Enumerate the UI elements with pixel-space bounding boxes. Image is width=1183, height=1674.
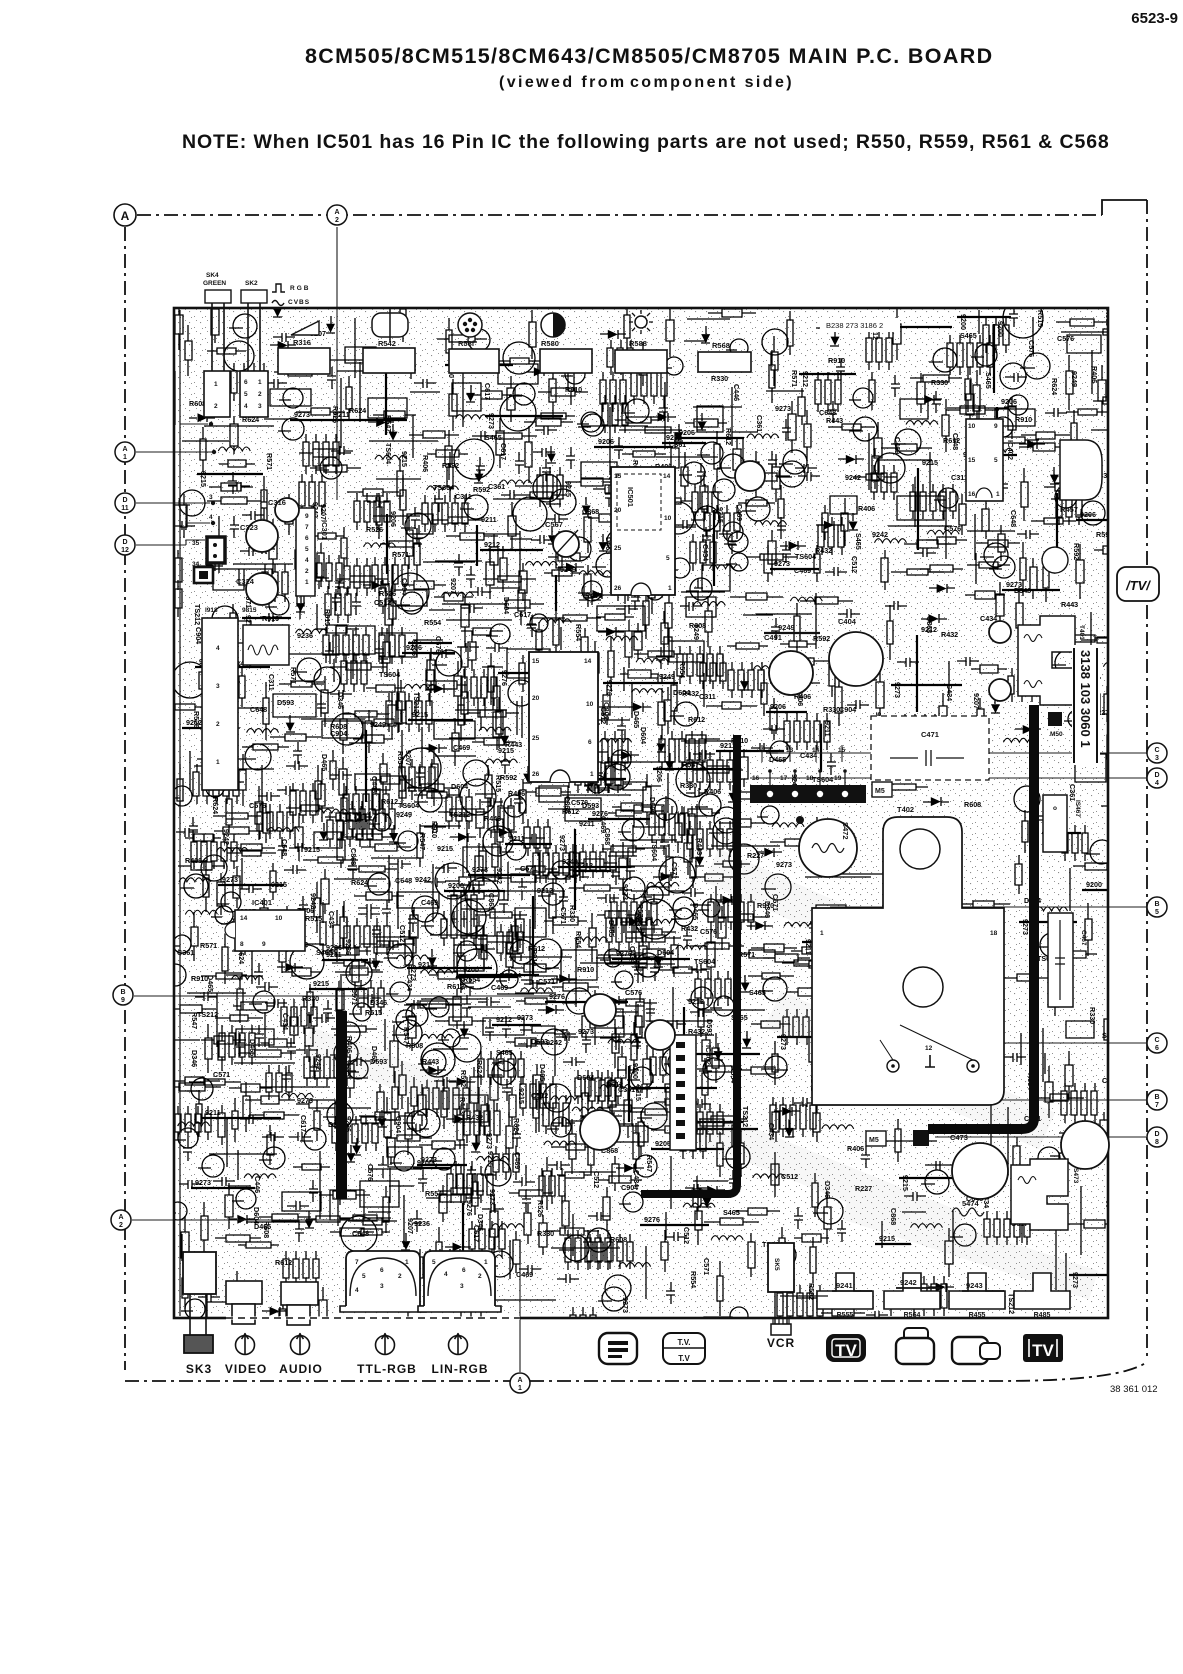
svg-text:AUDIO: AUDIO [279, 1362, 323, 1376]
svg-text:9273: 9273 [775, 404, 791, 413]
svg-text:R406: R406 [421, 455, 430, 472]
svg-text:5: 5 [244, 391, 248, 398]
svg-text:R330: R330 [711, 374, 728, 383]
svg-text:C617: C617 [299, 1115, 308, 1132]
svg-text:38 361 012: 38 361 012 [1110, 1384, 1158, 1395]
svg-text:10: 10 [664, 515, 672, 522]
svg-text:R443: R443 [484, 814, 501, 823]
svg-text:10: 10 [968, 423, 976, 430]
svg-text:9249: 9249 [659, 672, 675, 681]
svg-text:R330: R330 [680, 781, 697, 790]
svg-text:C571: C571 [559, 907, 568, 924]
svg-text:T.V.: T.V. [677, 1338, 690, 1347]
svg-text:R588: R588 [629, 339, 647, 348]
svg-text:9215: 9215 [412, 710, 428, 719]
svg-text:R554: R554 [574, 931, 583, 948]
svg-text:R547: R547 [418, 833, 427, 850]
svg-text:C434: C434 [945, 684, 954, 701]
svg-text:D593: D593 [277, 698, 294, 707]
svg-text:C404: C404 [838, 617, 857, 626]
svg-text:9249: 9249 [778, 623, 795, 632]
svg-text:D: D [122, 539, 127, 546]
svg-text:3: 3 [380, 1283, 384, 1290]
svg-text:D: D [1154, 772, 1159, 779]
svg-text:R571: R571 [392, 550, 409, 559]
svg-text:4: 4 [1155, 780, 1159, 787]
svg-text:TS604: TS604 [795, 552, 816, 561]
svg-text:15: 15 [968, 457, 976, 464]
svg-text:2: 2 [305, 568, 309, 575]
svg-text:C648: C648 [280, 839, 289, 856]
svg-text:T401: T401 [1078, 625, 1085, 640]
svg-text:R316: R316 [293, 338, 311, 347]
svg-text:9276: 9276 [616, 949, 632, 958]
svg-text:9242: 9242 [900, 1278, 917, 1287]
svg-text:C469: C469 [735, 504, 744, 521]
svg-text:10: 10 [275, 915, 283, 922]
svg-text:R910: R910 [430, 821, 439, 838]
svg-text:C361: C361 [488, 482, 505, 491]
svg-text:9215: 9215 [486, 1151, 495, 1167]
svg-text:C904: C904 [400, 578, 409, 595]
svg-text:C648: C648 [250, 705, 267, 714]
svg-text:9273: 9273 [485, 1133, 494, 1149]
svg-text:C323: C323 [240, 523, 258, 532]
svg-text:19: 19 [834, 775, 842, 782]
svg-text:1: 1 [820, 930, 824, 937]
svg-text:D346: D346 [190, 1050, 199, 1067]
svg-text:C469: C469 [513, 1152, 522, 1169]
svg-text:R608: R608 [406, 1041, 423, 1050]
svg-text:D465: D465 [769, 755, 786, 764]
svg-text:5: 5 [432, 1259, 436, 1266]
svg-text:4: 4 [305, 557, 309, 564]
svg-text:C434: C434 [327, 911, 336, 928]
svg-text:C311: C311 [267, 674, 276, 691]
svg-text:11: 11 [121, 505, 129, 512]
svg-text:2: 2 [214, 403, 218, 410]
svg-text:9236: 9236 [297, 631, 313, 640]
svg-text:C434: C434 [281, 1013, 290, 1030]
svg-text:R406: R406 [508, 789, 525, 798]
svg-text:C446: C446 [732, 384, 741, 401]
svg-text:R432: R432 [634, 913, 643, 930]
svg-text:T.V: T.V [678, 1354, 690, 1363]
svg-text:R406: R406 [858, 504, 875, 513]
svg-text:TS604: TS604 [433, 483, 454, 492]
svg-text:R515: R515 [1036, 310, 1045, 327]
svg-text:14: 14 [240, 915, 248, 922]
svg-text:C567: C567 [545, 520, 563, 529]
svg-text:C361: C361 [755, 415, 764, 432]
svg-text:R592: R592 [1096, 530, 1113, 539]
svg-text:9: 9 [305, 513, 309, 520]
svg-text:SK4: SK4 [206, 272, 219, 279]
svg-text:9273: 9273 [222, 875, 238, 884]
svg-text:IC802: IC802 [602, 700, 611, 720]
svg-text:1: 1 [668, 585, 672, 592]
svg-text:SK2: SK2 [245, 280, 258, 287]
svg-text:D465: D465 [691, 903, 700, 920]
svg-text:3: 3 [258, 403, 262, 410]
svg-text:9206: 9206 [770, 702, 786, 711]
svg-text:3: 3 [460, 1283, 464, 1290]
svg-text:IC402: IC402 [1006, 440, 1015, 460]
svg-text:9212: 9212 [577, 861, 593, 870]
svg-text:5: 5 [305, 546, 309, 553]
svg-text:C512: C512 [592, 1171, 601, 1188]
svg-text:C469: C469 [491, 983, 508, 992]
svg-text:R612: R612 [562, 807, 579, 816]
svg-text:3: 3 [209, 494, 213, 501]
svg-text:R624: R624 [1050, 378, 1059, 395]
svg-text:C576: C576 [1057, 334, 1074, 343]
svg-text:R555: R555 [837, 1312, 854, 1319]
svg-text:R592: R592 [1072, 543, 1081, 560]
svg-text:3138 103 3060 1: 3138 103 3060 1 [1078, 650, 1093, 748]
svg-text:S473: S473 [1072, 1168, 1079, 1184]
svg-text:9273: 9273 [517, 1013, 533, 1022]
svg-text:R547: R547 [682, 760, 699, 769]
svg-text:17: 17 [780, 775, 788, 782]
svg-text:R571: R571 [265, 453, 274, 470]
svg-text:9276: 9276 [465, 1200, 474, 1216]
svg-text:R624: R624 [349, 406, 366, 415]
svg-text:C576: C576 [249, 801, 266, 810]
svg-text:C467: C467 [1080, 930, 1087, 946]
svg-text:o: o [1053, 805, 1057, 812]
svg-text:C512: C512 [531, 1091, 548, 1100]
svg-text:4: 4 [355, 1287, 359, 1294]
svg-text:9212: 9212 [186, 718, 202, 727]
svg-text:9212: 9212 [484, 540, 500, 549]
svg-text:9242: 9242 [872, 530, 888, 539]
svg-text:9206: 9206 [389, 511, 398, 527]
svg-text:9215: 9215 [313, 979, 329, 988]
svg-text:C868: C868 [349, 848, 358, 865]
svg-text:R910: R910 [565, 385, 582, 394]
svg-text:R571: R571 [289, 667, 298, 684]
svg-text:9215: 9215 [564, 481, 573, 497]
svg-text:R910: R910 [828, 356, 845, 365]
svg-text:R624: R624 [512, 1118, 521, 1135]
svg-text:9276: 9276 [644, 1215, 660, 1224]
svg-text:RGB: RGB [290, 285, 310, 292]
svg-text:1: 1 [590, 771, 594, 778]
svg-text:TS212: TS212 [197, 1010, 218, 1019]
svg-text:C868: C868 [603, 828, 612, 845]
svg-text:2: 2 [216, 721, 220, 728]
svg-text:4: 4 [209, 514, 213, 521]
svg-text:C512: C512 [682, 1227, 691, 1244]
svg-text:D465: D465 [206, 975, 215, 992]
svg-text:C617: C617 [514, 610, 531, 619]
svg-text:R432: R432 [815, 546, 832, 555]
svg-text:SK5: SK5 [773, 1258, 780, 1271]
svg-text:9242: 9242 [222, 829, 231, 845]
svg-text:9215: 9215 [498, 746, 514, 755]
svg-text:9273: 9273 [294, 410, 310, 419]
svg-text:R612: R612 [381, 797, 398, 806]
svg-text:R592: R592 [442, 461, 459, 470]
svg-text:B238 273 3186 2: B238 273 3186 2 [826, 321, 883, 330]
svg-text:D346: D346 [336, 692, 345, 709]
svg-text:9273: 9273 [774, 559, 790, 568]
svg-text:R406: R406 [847, 1144, 864, 1153]
svg-text:C316: C316 [268, 498, 286, 507]
svg-text:9242: 9242 [415, 875, 431, 884]
svg-text:C471: C471 [921, 730, 939, 739]
svg-text:R608: R608 [964, 800, 981, 809]
svg-text:R571: R571 [790, 370, 799, 387]
svg-text:C576: C576 [1027, 340, 1036, 357]
svg-text:15: 15 [532, 658, 540, 665]
svg-text:D604: D604 [657, 948, 674, 957]
svg-text:S465: S465 [984, 372, 993, 389]
svg-text:S465: S465 [854, 533, 863, 550]
svg-text:TTL-RGB: TTL-RGB [357, 1362, 417, 1376]
svg-text:9242: 9242 [546, 1038, 562, 1047]
svg-text:R526: R526 [536, 1200, 545, 1217]
svg-text:C576: C576 [434, 636, 443, 653]
svg-text:R443: R443 [826, 416, 843, 425]
svg-text:C648: C648 [395, 876, 412, 885]
svg-text:9273: 9273 [297, 1096, 313, 1105]
svg-text:M5: M5 [869, 1137, 879, 1144]
svg-text:9241: 9241 [836, 1281, 853, 1290]
svg-text:9249: 9249 [370, 720, 386, 729]
svg-text:C491: C491 [764, 633, 782, 642]
svg-text:26: 26 [614, 585, 622, 592]
svg-text:C473: C473 [950, 1133, 968, 1142]
svg-text:D465: D465 [538, 1064, 547, 1081]
svg-text:25: 25 [532, 735, 540, 742]
svg-text:9815: 9815 [242, 607, 257, 614]
svg-text:C512: C512 [850, 556, 859, 573]
svg-text:A: A [118, 1214, 123, 1221]
svg-text:4: 4 [244, 403, 248, 410]
svg-text:R485: R485 [1034, 1312, 1051, 1319]
svg-text:9200: 9200 [1086, 880, 1102, 889]
svg-text:C576: C576 [625, 988, 642, 997]
svg-text:R554: R554 [689, 1271, 698, 1288]
svg-text:15: 15 [614, 473, 622, 480]
svg-text:D604: D604 [451, 782, 468, 791]
svg-text:3: 3 [1155, 755, 1159, 762]
svg-text:9236: 9236 [414, 1219, 430, 1228]
svg-text:9: 9 [994, 423, 998, 430]
svg-text:C617: C617 [1102, 1076, 1119, 1085]
svg-text:R406: R406 [704, 787, 721, 796]
svg-text:S472: S472 [841, 822, 850, 840]
svg-text:CVBS: CVBS [288, 299, 310, 306]
svg-text:2: 2 [119, 1222, 123, 1229]
svg-text:12: 12 [925, 1045, 933, 1052]
svg-text:C617: C617 [483, 383, 492, 400]
svg-text:26: 26 [532, 771, 540, 778]
svg-text:R554: R554 [425, 1189, 442, 1198]
svg-text:R515: R515 [323, 609, 332, 626]
svg-text:C311: C311 [699, 692, 716, 701]
svg-text:VCR: VCR [767, 1336, 795, 1350]
svg-text:TS604: TS604 [694, 957, 715, 966]
svg-text:C576: C576 [944, 524, 961, 533]
svg-text:D465: D465 [607, 920, 616, 937]
svg-text:R592: R592 [807, 1283, 816, 1300]
svg-text:9249: 9249 [692, 624, 701, 640]
svg-text:9211: 9211 [579, 819, 595, 828]
svg-text:9215: 9215 [922, 458, 938, 467]
svg-text:R58f: R58f [458, 339, 475, 348]
svg-text:D465: D465 [248, 1039, 257, 1056]
svg-text:D: D [122, 497, 127, 504]
svg-text:R612: R612 [528, 944, 545, 953]
svg-text:D346: D346 [370, 998, 387, 1007]
svg-text:9200: 9200 [448, 881, 464, 890]
svg-text:9249: 9249 [396, 810, 412, 819]
svg-text:9200: 9200 [996, 321, 1005, 337]
svg-text:R612: R612 [724, 428, 733, 445]
svg-text:9212: 9212 [537, 886, 553, 895]
svg-text:R612: R612 [275, 1258, 292, 1267]
svg-text:R554: R554 [396, 751, 405, 768]
svg-text:9207: 9207 [449, 578, 458, 594]
svg-text:C617: C617 [472, 1225, 481, 1242]
svg-text:R406: R406 [1090, 366, 1099, 383]
svg-text:1: 1 [305, 579, 309, 586]
svg-text:16: 16 [968, 491, 976, 498]
svg-text:12: 12 [121, 547, 129, 554]
svg-text:TS212: TS212 [449, 810, 470, 819]
svg-text:9215: 9215 [517, 1088, 526, 1104]
svg-text:9207: 9207 [972, 693, 981, 709]
svg-text:IC401: IC401 [252, 898, 272, 907]
svg-text:R624: R624 [211, 797, 220, 814]
svg-text:9211: 9211 [823, 721, 832, 737]
svg-text:R571: R571 [200, 941, 217, 950]
svg-text:9211: 9211 [481, 515, 497, 524]
svg-text:C446: C446 [370, 776, 379, 793]
svg-text:C311: C311 [455, 492, 472, 501]
svg-text:R455: R455 [969, 1312, 986, 1319]
svg-text:6: 6 [305, 535, 309, 542]
svg-text:9212: 9212 [496, 1015, 512, 1024]
svg-text:R330: R330 [823, 705, 840, 714]
svg-text:6: 6 [462, 1267, 466, 1274]
svg-text:9249: 9249 [1070, 371, 1079, 387]
svg-text:D604: D604 [577, 1073, 594, 1082]
svg-text:9206: 9206 [598, 437, 614, 446]
svg-text:C469: C469 [1110, 328, 1127, 337]
svg-text:9212: 9212 [688, 997, 704, 1006]
svg-text:D604: D604 [639, 727, 648, 744]
svg-text:1: 1 [405, 1259, 409, 1266]
svg-text:2: 2 [258, 391, 262, 398]
svg-text:VIDEO: VIDEO [225, 1362, 267, 1376]
svg-text:R910: R910 [577, 965, 594, 974]
svg-text:M50: M50 [1050, 731, 1063, 738]
svg-text:R910: R910 [1015, 415, 1032, 424]
svg-text:9: 9 [262, 941, 266, 948]
svg-text:9200: 9200 [463, 965, 479, 974]
svg-text:C648: C648 [1009, 510, 1018, 527]
svg-text:S465: S465 [485, 433, 502, 442]
svg-text:R624: R624 [351, 878, 368, 887]
svg-text:C868: C868 [487, 893, 496, 910]
svg-text:IS467: IS467 [1074, 800, 1081, 817]
svg-text:GREEN: GREEN [203, 280, 226, 287]
svg-text:D465: D465 [320, 754, 329, 771]
svg-text:7: 7 [305, 524, 309, 531]
svg-text:1: 1 [216, 759, 220, 766]
svg-text:C: C [1154, 1037, 1159, 1044]
svg-text:9215: 9215 [716, 507, 725, 523]
svg-text:S465: S465 [496, 1048, 513, 1057]
svg-text:A: A [122, 446, 127, 453]
svg-text:B: B [120, 989, 125, 996]
svg-text:1: 1 [996, 491, 1000, 498]
svg-text:9273: 9273 [472, 865, 488, 874]
svg-text:A: A [334, 209, 339, 216]
svg-text:C361: C361 [618, 1085, 635, 1094]
svg-text:R330: R330 [537, 1229, 554, 1238]
svg-text:C571: C571 [520, 864, 537, 873]
svg-text:9273: 9273 [621, 1297, 630, 1313]
svg-text:R542: R542 [378, 339, 396, 348]
svg-text:C904: C904 [394, 1116, 403, 1133]
svg-text:C324: C324 [236, 577, 255, 586]
svg-text:C617: C617 [499, 443, 508, 460]
svg-text:1: 1 [484, 1259, 488, 1266]
svg-text:IC301: IC301 [320, 520, 329, 540]
svg-text:9273: 9273 [195, 1178, 211, 1187]
svg-text:R580: R580 [541, 339, 559, 348]
svg-text:A: A [517, 1377, 522, 1384]
svg-text:R406: R406 [585, 591, 602, 600]
svg-text:TS604: TS604 [384, 443, 393, 464]
svg-text:9: 9 [121, 997, 125, 1004]
svg-text:C571: C571 [213, 1070, 230, 1079]
svg-text:C: C [1154, 747, 1159, 754]
svg-text:I918: I918 [205, 607, 218, 614]
svg-text:R515: R515 [365, 1008, 382, 1017]
svg-text:9206: 9206 [406, 643, 422, 652]
svg-text:9206: 9206 [1001, 397, 1017, 406]
svg-text:9206: 9206 [1080, 510, 1096, 519]
svg-text:1: 1 [258, 379, 262, 386]
svg-text:8: 8 [240, 941, 244, 948]
svg-text:D593: D593 [705, 1019, 714, 1036]
svg-text:6: 6 [380, 1267, 384, 1274]
svg-text:R554: R554 [574, 624, 583, 641]
svg-text:R330: R330 [302, 994, 319, 1003]
svg-text:R432: R432 [681, 924, 698, 933]
svg-text:TS604: TS604 [379, 670, 400, 679]
svg-text:A: A [121, 209, 130, 223]
svg-text:C868: C868 [582, 507, 599, 516]
svg-text:C576: C576 [700, 927, 717, 936]
svg-text:C469: C469 [453, 743, 470, 752]
svg-text:10: 10 [586, 701, 594, 708]
svg-text:D593: D593 [582, 801, 599, 810]
svg-text:R554: R554 [424, 618, 441, 627]
svg-text:9211: 9211 [205, 1108, 221, 1117]
svg-text:R612: R612 [943, 436, 960, 445]
svg-text:IC501: IC501 [626, 487, 635, 507]
svg-text:C576: C576 [366, 1164, 375, 1181]
svg-text:C904: C904 [330, 729, 347, 738]
svg-text:4: 4 [216, 645, 220, 652]
